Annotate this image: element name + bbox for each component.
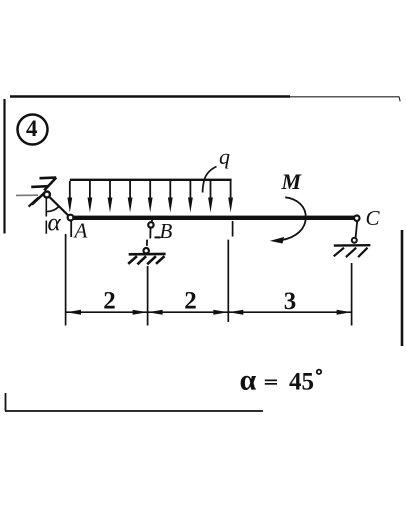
svg-text:q: q	[219, 144, 230, 169]
svg-text:45: 45	[289, 369, 314, 396]
svg-text:4: 4	[26, 116, 38, 141]
svg-text:α: α	[240, 364, 257, 397]
svg-text:C: C	[366, 206, 381, 230]
svg-text:2: 2	[184, 287, 197, 314]
svg-text:A: A	[73, 219, 88, 243]
svg-text:3: 3	[284, 288, 297, 315]
svg-text:M: M	[281, 169, 303, 194]
svg-text:B: B	[160, 219, 173, 243]
svg-text:α: α	[48, 210, 62, 237]
svg-text:2: 2	[103, 287, 116, 314]
